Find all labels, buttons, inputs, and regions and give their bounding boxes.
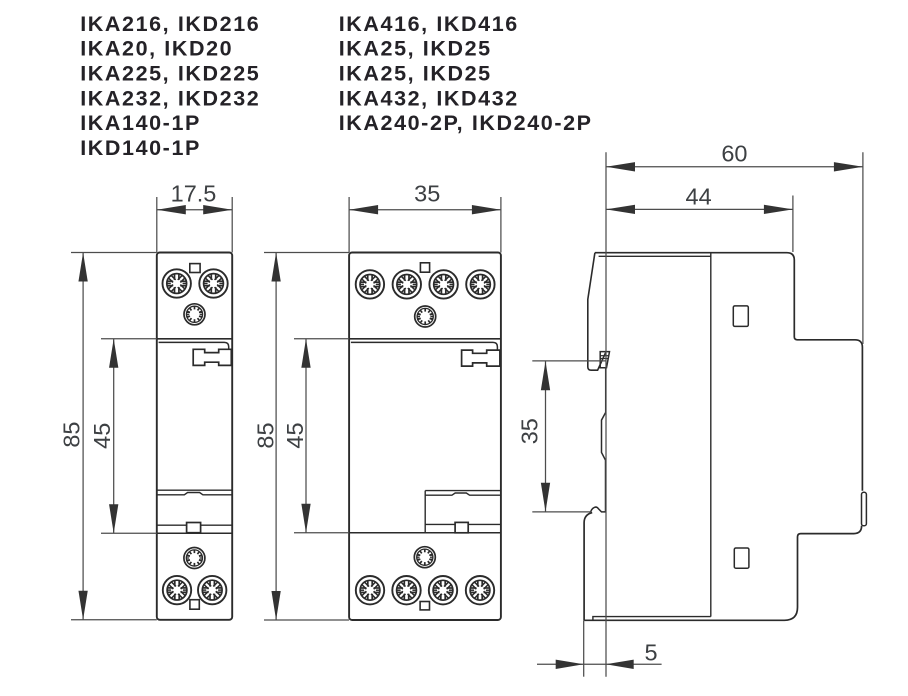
terminal screw bottom-left <box>163 576 191 604</box>
top inner seam <box>599 255 711 257</box>
dim 35 line <box>545 361 547 512</box>
coil screw bottom-center <box>414 547 435 568</box>
mid seam line A <box>157 489 232 491</box>
mid seam line B with tab <box>157 493 232 495</box>
dim 45 extension top <box>101 338 157 340</box>
back edge with recess jog <box>602 368 606 512</box>
sliding clip outline <box>584 513 592 621</box>
top terminal block divider <box>157 338 232 340</box>
svg-text:44: 44 <box>686 183 712 209</box>
terminal screw bottom 3 <box>429 576 457 604</box>
svg-text:35: 35 <box>414 181 440 207</box>
claw spring box <box>600 352 609 368</box>
terminal screw top 4 <box>466 270 494 298</box>
svg-text:IKD140-1P: IKD140-1P <box>80 136 201 160</box>
dim 35 extension lines <box>348 197 350 253</box>
terminal screw top 2 <box>393 270 421 298</box>
svg-text:IKA140-1P: IKA140-1P <box>80 111 201 135</box>
dim 44 line <box>606 208 793 210</box>
dim 45 extension bottom <box>101 532 157 534</box>
coil screw top-center <box>184 304 205 325</box>
terminal screw top-left <box>163 269 191 297</box>
dim 17.5 extension lines <box>156 197 158 253</box>
front face square upper <box>733 306 748 327</box>
terminal screw bottom-right <box>198 576 226 604</box>
indicator square bottom block <box>190 600 199 610</box>
svg-text:IKA20, IKD20: IKA20, IKD20 <box>80 37 233 61</box>
right half seam line B with tab <box>425 493 501 495</box>
dim 5 extension left <box>583 620 585 676</box>
mid vertical seam <box>710 253 712 617</box>
center vertical seam <box>424 491 426 533</box>
right half seam line A <box>425 490 501 492</box>
DIN clip square <box>455 522 468 532</box>
dim 60 extension left (datum line) <box>605 152 607 676</box>
side view: top & front outline <box>595 253 863 491</box>
right half lower seam C <box>425 523 455 525</box>
cover seam below divider <box>159 342 229 349</box>
svg-text:60: 60 <box>721 141 747 167</box>
svg-text:17.5: 17.5 <box>171 181 217 207</box>
svg-text:IKA225, IKD225: IKA225, IKD225 <box>80 62 260 86</box>
contactor front view 1-module: body outline <box>157 253 232 620</box>
svg-text:IKA25, IKD25: IKA25, IKD25 <box>339 62 492 86</box>
dim 45 extension bottom <box>294 532 349 534</box>
indicator square top <box>420 263 429 272</box>
svg-text:5: 5 <box>644 640 657 666</box>
svg-text:85: 85 <box>59 422 85 448</box>
dim 60 extension right <box>862 152 864 344</box>
contactor front view 2-module: body outline <box>349 253 501 621</box>
dim 85 extension bottom <box>264 619 349 621</box>
dim 85 extension top <box>71 252 157 254</box>
dim 85 line <box>275 253 277 621</box>
svg-text:IKA240-2P, IKD240-2P: IKA240-2P, IKD240-2P <box>339 111 593 135</box>
svg-text:IKA416, IKD416: IKA416, IKD416 <box>339 12 519 36</box>
bottom inner seam <box>593 617 711 621</box>
front face square lower <box>734 548 749 568</box>
terminal screw top-right <box>199 269 227 297</box>
svg-text:IKA232, IKD232: IKA232, IKD232 <box>80 86 260 110</box>
lower front outline <box>584 526 862 621</box>
svg-text:IKA216, IKD216: IKA216, IKD216 <box>80 12 260 36</box>
DIN clip square <box>187 523 201 533</box>
dim 60 line <box>606 166 863 168</box>
cover seam below divider <box>351 342 498 350</box>
terminal screw top 3 <box>429 270 457 298</box>
bottom divider line D <box>349 532 501 534</box>
svg-text:IKA25, IKD25: IKA25, IKD25 <box>339 37 492 61</box>
upper DIN claw outline <box>588 253 606 371</box>
lower seam line C <box>157 524 187 526</box>
dim 85 extension top <box>264 252 349 254</box>
rail hook bump <box>591 507 606 512</box>
dim 35 extension top <box>532 360 605 362</box>
svg-text:35: 35 <box>517 418 543 444</box>
switch lever <box>193 349 231 365</box>
terminal cover lip (pill) <box>862 492 867 526</box>
terminal screw bottom 1 <box>356 576 384 604</box>
bottom terminal divider line D <box>157 532 232 534</box>
indicator square top block <box>190 264 200 273</box>
svg-text:IKA432, IKD432: IKA432, IKD432 <box>339 86 519 110</box>
terminal screw top 1 <box>356 270 384 298</box>
claw spring hatch lines <box>600 355 609 357</box>
indicator square bottom <box>420 602 429 610</box>
terminal screw bottom 2 <box>392 576 420 604</box>
dim 45 line <box>305 339 307 533</box>
coil screw bottom-center <box>184 548 205 569</box>
dim 85 line <box>82 253 84 620</box>
coil screw top-center <box>415 306 436 327</box>
top terminal divider <box>349 338 501 340</box>
dim 17.5 line <box>157 209 232 211</box>
dim 85 extension bottom <box>71 619 157 621</box>
dim 44 extension right <box>792 196 794 253</box>
svg-text:85: 85 <box>253 422 279 448</box>
dim 35 line <box>349 209 501 211</box>
switch lever right module <box>462 350 500 366</box>
svg-text:45: 45 <box>89 423 115 449</box>
dim 45 line <box>113 339 115 533</box>
dim 45 extension top <box>294 338 349 340</box>
terminal screw bottom 4 <box>466 576 494 604</box>
dim 35 extension bottom <box>532 511 590 513</box>
svg-text:45: 45 <box>282 422 308 448</box>
dim 5 line <box>537 663 662 665</box>
